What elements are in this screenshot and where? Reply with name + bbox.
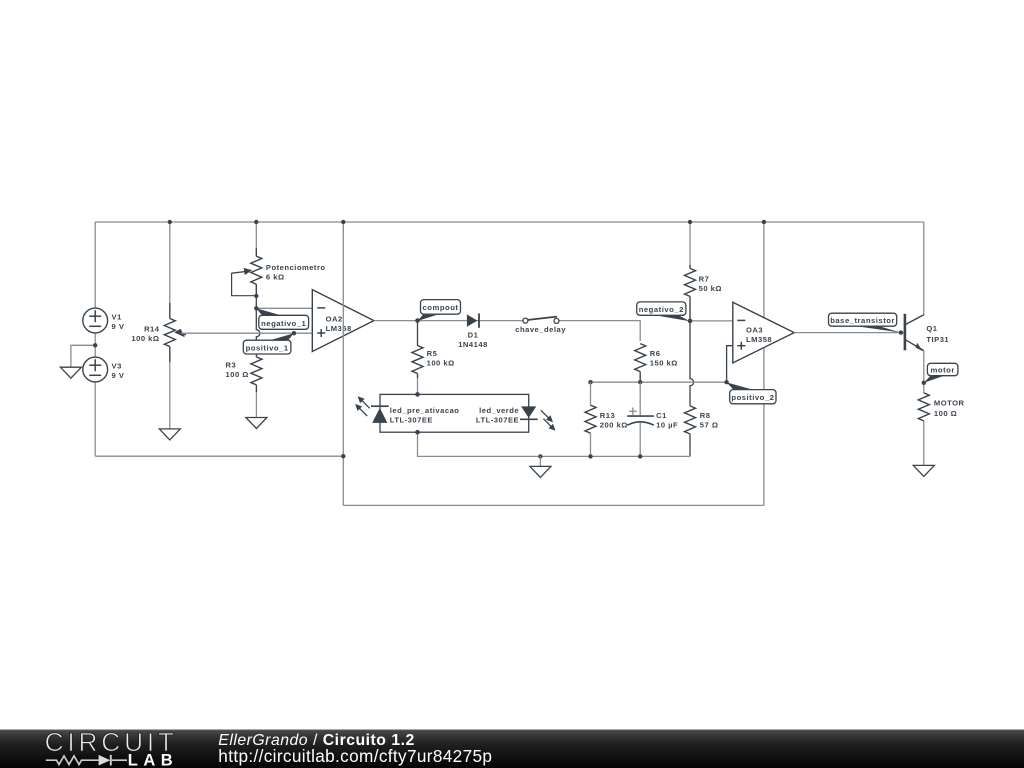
svg-text:led_verde: led_verde xyxy=(479,406,519,415)
wire compout node to R5 xyxy=(417,321,419,346)
svg-text:R3: R3 xyxy=(226,361,237,370)
junction bottom-left wire and OA2 power rail xyxy=(341,454,345,458)
junction compout node xyxy=(415,318,420,323)
potentiometer Potenciometro xyxy=(232,248,262,296)
wire top rail to R14 xyxy=(169,222,171,305)
junction top rail potentiometer xyxy=(254,220,258,224)
svg-text:6 kΩ: 6 kΩ xyxy=(266,272,285,281)
wire top supply rail xyxy=(95,221,924,223)
wire R14 wiper to OA2 plus input xyxy=(181,332,312,334)
junction top rail OA3 power xyxy=(762,220,766,224)
CircuitLab logo resistor-diode symbol xyxy=(46,755,127,766)
wire potentiometer to negativo_1 node xyxy=(255,296,257,308)
wire top rail to R7 xyxy=(689,222,691,266)
resistor R3 xyxy=(251,354,262,393)
junction top rail OA2 power xyxy=(341,220,345,224)
svg-text:R6: R6 xyxy=(650,349,661,358)
wire C1 bottom lead xyxy=(639,423,641,457)
wire V1 to V3 xyxy=(94,333,96,357)
svg-text:9 V: 9 V xyxy=(112,322,125,331)
svg-text:200 kΩ: 200 kΩ xyxy=(600,421,628,430)
junction positivo_1 node xyxy=(292,331,296,335)
svg-text:D1: D1 xyxy=(468,331,479,340)
svg-text:MOTOR: MOTOR xyxy=(934,398,965,407)
svg-text:led_pre_ativacao: led_pre_ativacao xyxy=(390,406,460,415)
svg-text:R7: R7 xyxy=(699,274,710,283)
wire negativo_1 node to OA2 minus input xyxy=(256,307,312,309)
svg-text:negativo_1: negativo_1 xyxy=(261,319,306,328)
node flag compout xyxy=(418,300,461,321)
footer bar xyxy=(0,730,1024,768)
svg-text:chave_delay: chave_delay xyxy=(515,325,566,334)
LED led_pre_ativacao LTL-307EE xyxy=(355,396,389,423)
wire top rail to Q1 collector xyxy=(923,222,925,315)
junction positivo_2 flag node xyxy=(724,380,728,384)
wire R3 to ground xyxy=(255,392,257,418)
svg-text:50 kΩ: 50 kΩ xyxy=(699,284,722,293)
svg-text:150 kΩ: 150 kΩ xyxy=(650,358,678,367)
ground at V1/V3 midpoint xyxy=(60,367,81,378)
svg-text:R14: R14 xyxy=(144,325,160,334)
svg-text:9 V: 9 V xyxy=(112,371,125,380)
junction base_transistor node xyxy=(899,330,903,334)
svg-text:base_transistor: base_transistor xyxy=(830,316,895,325)
junction V1-V3 midpoint xyxy=(93,343,97,347)
svg-text:10 µF: 10 µF xyxy=(656,421,678,430)
capacitor C1 xyxy=(627,408,654,426)
svg-text:motor: motor xyxy=(931,366,955,375)
junction LED box bottom xyxy=(415,430,420,435)
wire R13 bottom lead xyxy=(590,433,592,456)
resistor R8 xyxy=(685,406,696,457)
wire MOTOR to ground xyxy=(923,421,925,466)
op-amp OA2 LM358 xyxy=(312,290,374,352)
junction C1 bottom xyxy=(638,454,642,458)
junction potentiometer wiper loop xyxy=(254,294,258,298)
svg-text:LM358: LM358 xyxy=(326,324,352,333)
junction R13 bottom xyxy=(588,454,592,458)
wire negativo_1 node down to R3 with hop over wiper wire xyxy=(256,308,260,353)
wire bottom-left horizontal xyxy=(95,455,343,457)
ground center xyxy=(530,466,551,477)
ground below R14 xyxy=(159,429,180,440)
wire C1 top lead xyxy=(639,382,641,416)
wire negativo_2 node down to R8 with hop over positivo_2 wire xyxy=(690,321,694,406)
resistor R14 (rheostat) xyxy=(164,303,186,362)
svg-text:C1: C1 xyxy=(656,411,667,420)
svg-text:100 Ω: 100 Ω xyxy=(226,370,249,379)
wire ground stem xyxy=(539,456,541,466)
node flag negativo_1 xyxy=(256,308,308,329)
switch chave_delay xyxy=(523,316,560,326)
svg-text:OA3: OA3 xyxy=(746,325,763,334)
svg-text:1N4148: 1N4148 xyxy=(458,340,488,349)
voltage source V1 xyxy=(83,308,108,333)
svg-text:http://circuitlab.com/cfty7ur8: http://circuitlab.com/cfty7ur84275p xyxy=(218,746,492,766)
svg-text:Q1: Q1 xyxy=(926,324,937,333)
svg-text:100 kΩ: 100 kΩ xyxy=(131,334,159,343)
voltage source V3 xyxy=(83,357,108,382)
wire Q1 emitter to MOTOR xyxy=(923,351,925,393)
node flag motor xyxy=(924,363,958,383)
wire R5 to LED box xyxy=(417,378,419,394)
op-amp OA3 LM358 xyxy=(733,302,794,363)
resistor MOTOR xyxy=(918,393,929,421)
wire negativo_2 node to OA3 minus input xyxy=(690,320,733,322)
svg-text:R13: R13 xyxy=(600,411,615,420)
wire bottom negative rail xyxy=(343,504,764,506)
svg-text:Potenciometro: Potenciometro xyxy=(266,263,326,272)
ground below R3 xyxy=(246,418,267,429)
node flag negativo_2 xyxy=(637,302,690,321)
transistor Q1 TIP31 xyxy=(905,314,924,351)
svg-text:LTL-307EE: LTL-307EE xyxy=(390,416,433,425)
diode D1 1N4148 xyxy=(467,313,479,327)
junction motor flag node xyxy=(922,381,926,385)
node flag positivo_2 xyxy=(727,382,776,403)
svg-text:TIP31: TIP31 xyxy=(926,335,949,344)
svg-text:R8: R8 xyxy=(700,411,711,420)
wire ground hook from V1/V3 midpoint xyxy=(71,345,95,367)
wire left rail from top rail to V1 xyxy=(94,222,96,308)
junction R13 top corner xyxy=(588,380,592,384)
junction ground tap xyxy=(538,454,542,458)
junction top rail R7 xyxy=(688,220,692,224)
svg-text:LAB: LAB xyxy=(128,751,178,768)
resistor R6 xyxy=(635,344,646,383)
svg-text:V1: V1 xyxy=(112,313,123,322)
svg-text:57 Ω: 57 Ω xyxy=(700,421,719,430)
wire V3 down to bottom-left wire xyxy=(94,382,96,456)
LED led_verde LTL-307EE xyxy=(520,406,556,430)
junction negativo_1 node xyxy=(254,306,258,310)
junction LED box top xyxy=(415,392,420,397)
svg-text:100 kΩ: 100 kΩ xyxy=(427,358,455,367)
resistor R5 xyxy=(412,346,423,379)
svg-text:OA2: OA2 xyxy=(326,314,343,323)
wire R13 top lead xyxy=(590,382,592,405)
wire OA3 output to Q1 base xyxy=(794,332,904,334)
svg-text:positivo_1: positivo_1 xyxy=(246,344,289,353)
junction R6 bottom on positivo_2 wire xyxy=(638,380,642,384)
wire OA2 output to R6 corner xyxy=(374,321,640,341)
LED subcircuit box xyxy=(380,394,529,432)
junction top rail R14 xyxy=(168,220,172,224)
svg-text:100 Ω: 100 Ω xyxy=(934,409,957,418)
wire R14 to ground xyxy=(169,362,171,429)
wire OA2 power rail vertical xyxy=(342,222,344,505)
wire OA3 power rail vertical xyxy=(763,222,765,505)
svg-text:positivo_2: positivo_2 xyxy=(731,393,774,402)
wire positivo_2 up to OA3 plus input xyxy=(727,346,733,383)
junction negativo_2 node xyxy=(688,319,693,324)
svg-text:LM358: LM358 xyxy=(746,335,772,344)
svg-text:negativo_2: negativo_2 xyxy=(639,305,684,314)
wire top rail to potentiometer xyxy=(255,222,257,250)
svg-text:LTL-307EE: LTL-307EE xyxy=(476,416,519,425)
wire LED box bottom to ground rail xyxy=(418,432,691,456)
svg-text:compout: compout xyxy=(423,303,459,312)
svg-text:V3: V3 xyxy=(112,362,122,371)
node flag positivo_1 xyxy=(243,333,294,354)
node flag base_transistor xyxy=(829,313,901,332)
resistor R7 xyxy=(685,265,696,321)
ground below MOTOR xyxy=(913,465,934,476)
wire positivo_2 horizontal (R13/C1/R6 top to OA3 plus) xyxy=(591,381,727,383)
resistor R13 xyxy=(585,405,596,433)
svg-text:R5: R5 xyxy=(427,349,438,358)
